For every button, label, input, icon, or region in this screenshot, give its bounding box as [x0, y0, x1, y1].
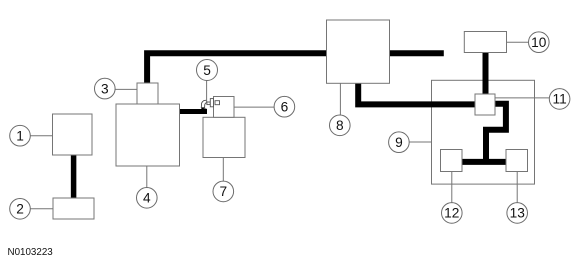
svg-text:3: 3: [101, 81, 109, 96]
svg-text:11: 11: [552, 92, 566, 107]
svg-text:5: 5: [203, 63, 211, 78]
svg-text:10: 10: [531, 35, 547, 50]
svg-text:2: 2: [16, 202, 24, 217]
svg-text:9: 9: [395, 135, 403, 150]
svg-text:1: 1: [16, 129, 24, 144]
svg-text:6: 6: [281, 100, 289, 115]
svg-text:N0103223: N0103223: [8, 247, 54, 258]
svg-text:4: 4: [143, 191, 151, 206]
svg-text:13: 13: [510, 206, 526, 221]
svg-text:8: 8: [336, 118, 344, 133]
svg-text:7: 7: [219, 184, 227, 199]
svg-text:12: 12: [444, 206, 459, 221]
